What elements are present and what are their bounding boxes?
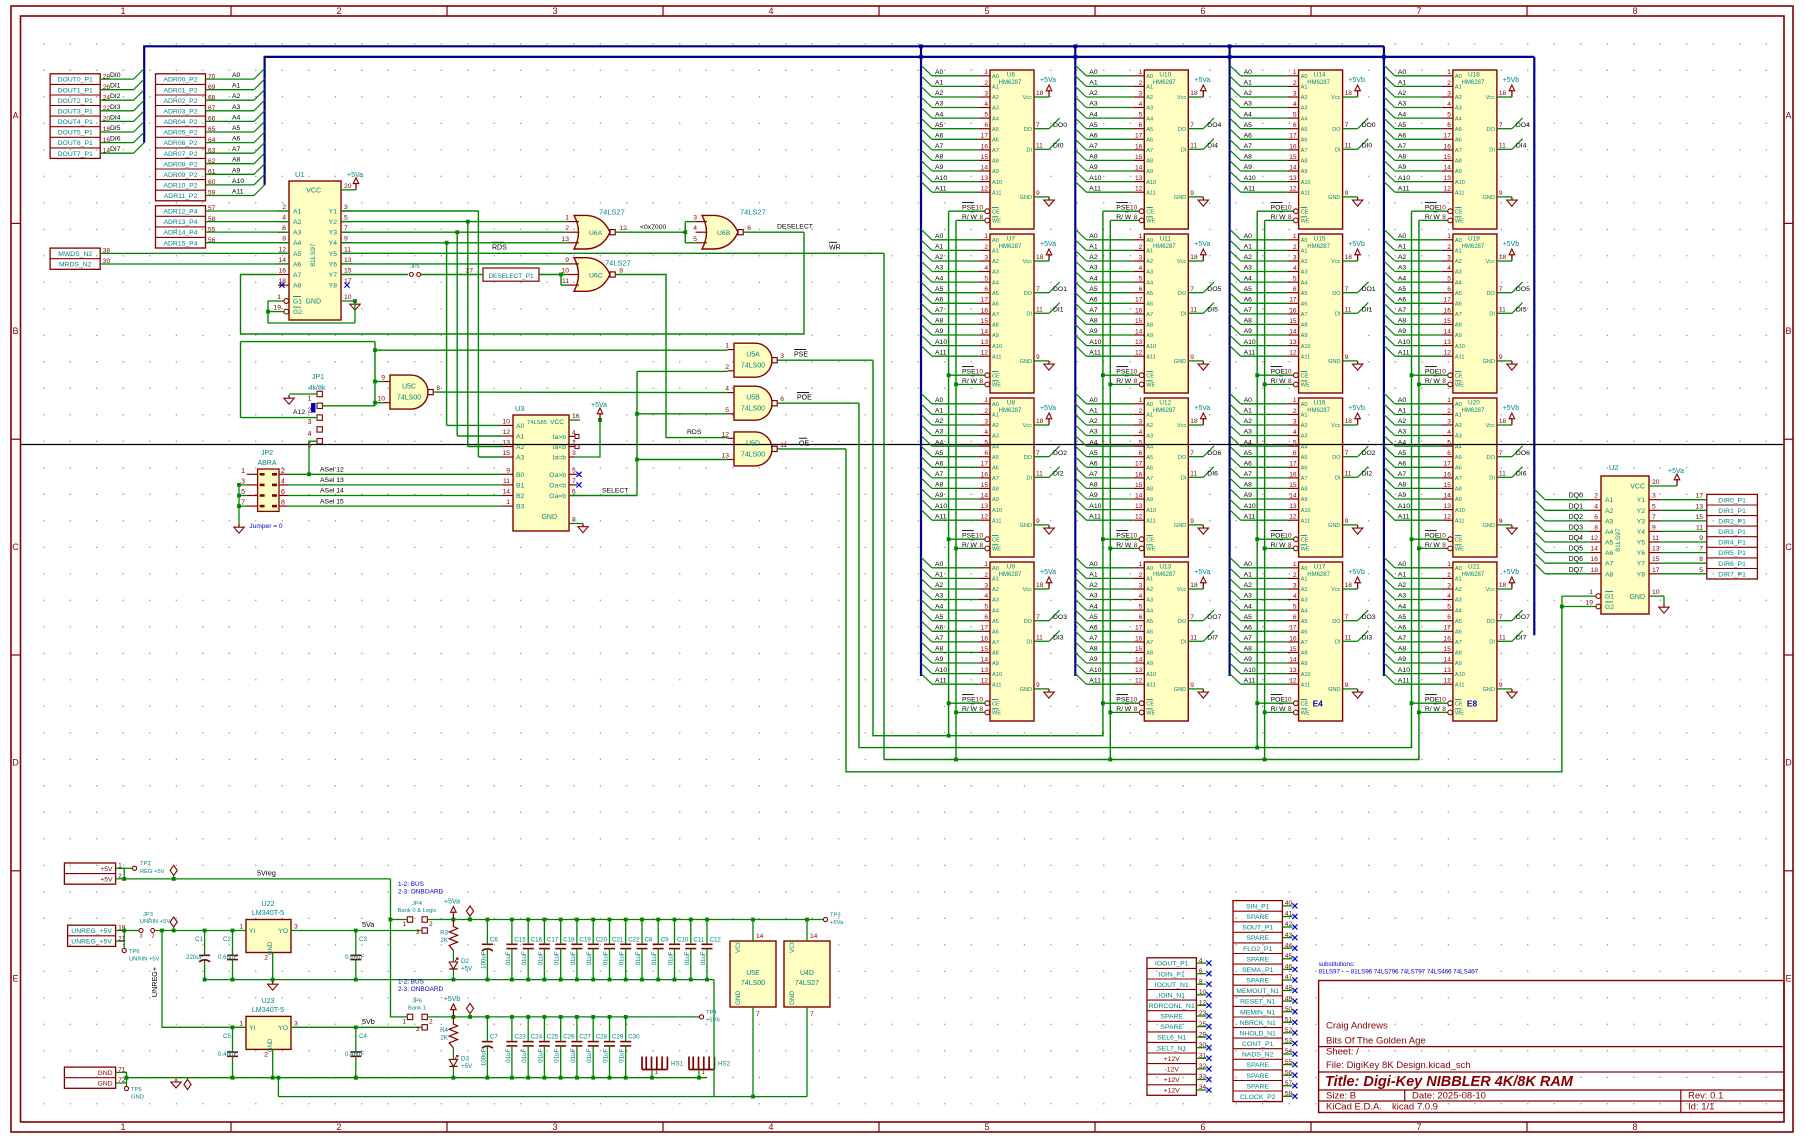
svg-text:A8: A8 — [1146, 323, 1153, 329]
svg-text:A7: A7 — [1244, 635, 1253, 642]
svg-text:WE: WE — [1146, 219, 1155, 225]
svg-text:57: 57 — [208, 205, 216, 212]
svg-text:A3: A3 — [1089, 593, 1098, 600]
svg-text:<0x7000: <0x7000 — [640, 224, 666, 231]
svg-text:A6: A6 — [1089, 133, 1098, 140]
svg-text:HM6287: HM6287 — [1462, 408, 1485, 414]
svg-text:58: 58 — [208, 216, 216, 223]
svg-text:13: 13 — [1135, 339, 1143, 346]
svg-text:DI: DI — [1181, 476, 1187, 482]
svg-text:A3: A3 — [1146, 106, 1153, 112]
svg-text:74LS00: 74LS00 — [397, 395, 421, 402]
svg-text:8: 8 — [979, 378, 983, 385]
svg-text:DI1: DI1 — [1053, 307, 1064, 314]
svg-text:20: 20 — [344, 183, 352, 190]
svg-text:A2: A2 — [1244, 418, 1253, 425]
svg-text:A7: A7 — [1455, 640, 1462, 646]
svg-text:U6A: U6A — [589, 230, 603, 237]
svg-text:A11: A11 — [992, 518, 1002, 524]
svg-text:ADR01_P2: ADR01_P2 — [163, 87, 197, 94]
svg-text:A6: A6 — [293, 261, 302, 268]
svg-text:D3: D3 — [461, 1055, 469, 1062]
svg-text:A2: A2 — [1398, 90, 1407, 97]
svg-text:A8: A8 — [1146, 487, 1153, 493]
svg-text:3: 3 — [139, 934, 142, 940]
svg-text:R/: R/ — [962, 214, 969, 221]
svg-text:HS1: HS1 — [671, 1061, 684, 1068]
svg-text:U3: U3 — [515, 404, 525, 413]
svg-text:REG +5V: REG +5V — [140, 869, 165, 875]
svg-text:PSE: PSE — [1116, 697, 1130, 704]
svg-text:A6: A6 — [1398, 461, 1407, 468]
svg-text:11: 11 — [1345, 635, 1352, 642]
svg-text:1: 1 — [1293, 69, 1297, 76]
svg-text:3: 3 — [1139, 254, 1143, 261]
svg-text:A9: A9 — [1398, 492, 1407, 499]
svg-text:W: W — [1125, 378, 1132, 385]
svg-text:Y3: Y3 — [329, 230, 338, 237]
svg-text:8: 8 — [619, 268, 623, 275]
svg-text:DESELECT_P1: DESELECT_P1 — [488, 273, 534, 280]
svg-text:5: 5 — [984, 1122, 989, 1132]
svg-text:9: 9 — [1345, 518, 1349, 525]
svg-text:5: 5 — [1447, 276, 1451, 283]
svg-text:YO: YO — [278, 1025, 288, 1032]
svg-text:3: 3 — [1293, 582, 1297, 589]
svg-text:12: 12 — [619, 225, 627, 232]
svg-text:W: W — [971, 378, 978, 385]
svg-text:15: 15 — [1444, 154, 1452, 161]
svg-text:A5: A5 — [1146, 619, 1153, 625]
svg-text:8: 8 — [1134, 706, 1138, 713]
svg-text:A11: A11 — [1398, 513, 1410, 520]
svg-text:11: 11 — [503, 478, 510, 485]
svg-text:A8: A8 — [1244, 318, 1253, 325]
svg-text:WE: WE — [1301, 711, 1310, 717]
svg-text:+12V: +12V — [1164, 1077, 1181, 1084]
svg-text:7: 7 — [1652, 514, 1656, 521]
svg-text:4: 4 — [281, 478, 285, 485]
svg-text:A2: A2 — [1398, 254, 1407, 261]
svg-text:10: 10 — [1439, 533, 1447, 540]
svg-text:3: 3 — [984, 254, 988, 261]
svg-text:B3: B3 — [516, 504, 525, 511]
svg-text:C15: C15 — [514, 936, 526, 943]
svg-text:A2: A2 — [935, 582, 944, 589]
svg-text:DQ0: DQ0 — [1569, 493, 1584, 500]
svg-text:63: 63 — [208, 147, 216, 154]
svg-text:POE: POE — [1425, 533, 1440, 540]
svg-text:5: 5 — [1447, 604, 1451, 611]
svg-text:R4: R4 — [440, 1027, 448, 1034]
svg-text:33: 33 — [1199, 1074, 1207, 1081]
svg-text:A0: A0 — [1089, 69, 1098, 76]
svg-text:A10: A10 — [1301, 508, 1311, 514]
svg-text:A7: A7 — [935, 143, 944, 150]
svg-text:A6: A6 — [992, 466, 999, 472]
svg-text:3: 3 — [984, 582, 988, 589]
svg-text:ADR13_P4: ADR13_P4 — [163, 219, 197, 226]
svg-text:+5Vb: +5Vb — [1503, 77, 1520, 84]
svg-text:A3: A3 — [992, 598, 999, 604]
svg-text:JP5: JP5 — [410, 264, 419, 270]
svg-text:25: 25 — [1199, 1021, 1207, 1028]
svg-text:01uF: 01uF — [603, 951, 610, 965]
svg-text:GND: GND — [1328, 687, 1340, 693]
svg-text:WE: WE — [1455, 711, 1464, 717]
svg-text:PSE: PSE — [962, 533, 976, 540]
svg-text:A2: A2 — [1146, 423, 1153, 429]
svg-text:A2: A2 — [1398, 582, 1407, 589]
svg-text:A9: A9 — [1244, 328, 1253, 335]
svg-text:8: 8 — [1134, 214, 1138, 221]
svg-text:16: 16 — [1444, 143, 1452, 150]
svg-text:HM6287: HM6287 — [1153, 80, 1176, 86]
svg-text:NADS_N2: NADS_N2 — [1242, 1052, 1274, 1059]
svg-text:C4: C4 — [359, 1033, 367, 1040]
svg-text:VCC: VCC — [306, 187, 321, 194]
svg-text:WE: WE — [992, 547, 1001, 553]
svg-text:SPARE: SPARE — [1246, 1062, 1269, 1069]
svg-text:YO: YO — [278, 928, 288, 935]
svg-text:4: 4 — [1139, 265, 1143, 272]
svg-text:8: 8 — [1288, 542, 1292, 549]
svg-text:U20: U20 — [1468, 399, 1480, 406]
svg-text:5Va: 5Va — [362, 920, 374, 929]
svg-text:A4: A4 — [1146, 608, 1153, 614]
svg-text:A3: A3 — [1089, 265, 1098, 272]
svg-text:5: 5 — [308, 443, 312, 450]
svg-text:DO: DO — [1332, 619, 1341, 625]
svg-text:45: 45 — [1285, 953, 1293, 960]
svg-text:JP2: JP2 — [261, 450, 273, 457]
svg-text:18: 18 — [1499, 418, 1507, 425]
svg-text:W: W — [1125, 214, 1132, 221]
svg-text:3: 3 — [1293, 418, 1297, 425]
svg-text:14: 14 — [1135, 164, 1143, 171]
svg-text:A10: A10 — [1301, 344, 1311, 350]
svg-text:HM6287: HM6287 — [1307, 244, 1330, 250]
svg-text:1: 1 — [984, 561, 988, 568]
svg-text:12: 12 — [1289, 186, 1297, 193]
svg-text:DI: DI — [1335, 148, 1341, 154]
svg-text:R/: R/ — [1425, 378, 1432, 385]
svg-text:01uF: 01uF — [651, 951, 658, 965]
svg-text:A7: A7 — [1146, 148, 1153, 154]
svg-text:W: W — [1433, 214, 1440, 221]
svg-text:6: 6 — [1200, 6, 1205, 16]
svg-text:WE: WE — [1301, 547, 1310, 553]
svg-text:A5: A5 — [1455, 619, 1462, 625]
svg-text:17: 17 — [1444, 133, 1452, 140]
svg-text:LM340T-5: LM340T-5 — [252, 908, 284, 917]
svg-text:A2: A2 — [1089, 254, 1098, 261]
svg-text:A9: A9 — [1244, 656, 1253, 663]
svg-text:2: 2 — [1447, 572, 1451, 579]
svg-text:A0: A0 — [1244, 397, 1253, 404]
svg-text:7: 7 — [1190, 614, 1194, 621]
svg-text:Ia>b: Ia>b — [553, 434, 567, 441]
svg-text:3: 3 — [416, 1026, 420, 1033]
svg-text:A8: A8 — [232, 157, 241, 164]
svg-text:A8: A8 — [1089, 482, 1098, 489]
svg-text:A0: A0 — [516, 423, 525, 430]
svg-text:7: 7 — [1499, 286, 1503, 293]
svg-text:8: 8 — [1632, 1122, 1637, 1132]
svg-text:A5: A5 — [1244, 286, 1253, 293]
svg-text:A4: A4 — [1605, 529, 1614, 536]
svg-text:12: 12 — [1444, 186, 1452, 193]
svg-text:A9: A9 — [1398, 656, 1407, 663]
svg-text:DIR1_P1: DIR1_P1 — [1718, 508, 1746, 515]
svg-text:C17: C17 — [547, 936, 559, 943]
svg-text:DI: DI — [1026, 640, 1032, 646]
svg-text:+5Va: +5Va — [1194, 569, 1210, 576]
svg-text:GND: GND — [789, 990, 796, 1005]
svg-text:A4: A4 — [935, 439, 944, 446]
svg-text:CONT_P1: CONT_P1 — [1242, 1041, 1274, 1048]
svg-text:17: 17 — [1652, 567, 1660, 574]
svg-text:2: 2 — [264, 1051, 268, 1058]
svg-text:01uF: 01uF — [554, 1048, 561, 1062]
svg-text:A4: A4 — [293, 240, 302, 247]
svg-text:U5C: U5C — [402, 384, 416, 391]
svg-text:2: 2 — [984, 244, 988, 251]
svg-text:8: 8 — [1288, 214, 1292, 221]
svg-text:A5: A5 — [992, 455, 999, 461]
svg-text:POE: POE — [1271, 205, 1286, 212]
svg-text:A8: A8 — [1398, 154, 1407, 161]
svg-text:A3: A3 — [1398, 593, 1407, 600]
svg-text:A2: A2 — [1455, 95, 1462, 101]
svg-text:A3: A3 — [1398, 265, 1407, 272]
svg-text:A3: A3 — [935, 265, 944, 272]
svg-text:16: 16 — [1135, 635, 1143, 642]
svg-text:SPARE: SPARE — [1246, 914, 1269, 921]
svg-text:9: 9 — [565, 257, 569, 264]
svg-text:19: 19 — [1585, 600, 1593, 607]
svg-text:DO: DO — [1487, 127, 1496, 133]
svg-text:01uF: 01uF — [537, 951, 544, 965]
svg-text:UNREG_+5V: UNREG_+5V — [71, 939, 112, 946]
svg-text:A9: A9 — [992, 661, 999, 667]
svg-text:11: 11 — [1499, 471, 1506, 478]
svg-text:13: 13 — [1135, 175, 1143, 182]
svg-text:1: 1 — [402, 921, 406, 928]
svg-text:A4: A4 — [1301, 116, 1308, 122]
svg-text:+5Va: +5Va — [1194, 77, 1210, 84]
svg-text:CLOCK_P2: CLOCK_P2 — [1240, 1094, 1276, 1101]
svg-text:CE: CE — [992, 701, 1000, 707]
svg-text:+5Va: +5Va — [591, 402, 607, 409]
svg-text:A4: A4 — [1089, 439, 1098, 446]
svg-text:GND: GND — [97, 1070, 112, 1077]
svg-text:3: 3 — [1139, 582, 1143, 589]
svg-text:A5: A5 — [1089, 450, 1098, 457]
svg-text:A1: A1 — [1244, 244, 1253, 251]
svg-text:10: 10 — [1199, 989, 1207, 996]
svg-text:U9: U9 — [1007, 563, 1016, 570]
svg-text:A8: A8 — [1455, 159, 1462, 165]
svg-text:55: 55 — [208, 226, 216, 233]
svg-text:A4: A4 — [1244, 275, 1253, 282]
svg-text:4: 4 — [572, 429, 576, 436]
svg-text:38: 38 — [103, 248, 111, 255]
svg-text:DI: DI — [1489, 640, 1495, 646]
svg-text:14: 14 — [756, 933, 764, 940]
svg-text:3: 3 — [1447, 90, 1451, 97]
svg-text:51: 51 — [1285, 1017, 1293, 1024]
svg-text:6: 6 — [747, 225, 751, 232]
svg-text:29: 29 — [1199, 1031, 1207, 1038]
svg-text:1: 1 — [1139, 561, 1143, 568]
svg-text:6: 6 — [1293, 450, 1297, 457]
svg-text:A5: A5 — [1146, 455, 1153, 461]
svg-text:1: 1 — [1139, 397, 1143, 404]
svg-text:A8: A8 — [992, 323, 999, 329]
svg-text:3: 3 — [552, 1122, 557, 1132]
svg-text:A3: A3 — [1398, 429, 1407, 436]
svg-text:17: 17 — [344, 278, 352, 285]
svg-text:A5: A5 — [935, 450, 944, 457]
svg-text:Ia=b: Ia=b — [553, 455, 567, 462]
svg-text:14: 14 — [502, 489, 510, 496]
svg-text:A7: A7 — [1455, 312, 1462, 318]
svg-text:PSE: PSE — [962, 697, 976, 704]
svg-text:5: 5 — [693, 236, 697, 243]
svg-text:U5B: U5B — [746, 395, 760, 402]
svg-text:58: 58 — [1285, 1091, 1293, 1098]
svg-text:7: 7 — [1345, 614, 1349, 621]
svg-text:A1: A1 — [516, 434, 525, 441]
svg-text:14: 14 — [981, 164, 989, 171]
svg-text:A3: A3 — [935, 101, 944, 108]
svg-text:14: 14 — [810, 933, 818, 940]
svg-text:4: 4 — [984, 265, 988, 272]
svg-text:01uF: 01uF — [619, 1048, 626, 1062]
svg-text:10: 10 — [1130, 697, 1138, 704]
svg-text:W: W — [1279, 378, 1286, 385]
svg-text:14: 14 — [1135, 656, 1143, 663]
svg-text:MEMIN_N1: MEMIN_N1 — [1240, 1009, 1275, 1016]
svg-text:74LS85: 74LS85 — [527, 420, 547, 426]
svg-text:DI7: DI7 — [110, 146, 121, 153]
svg-text:U19: U19 — [1468, 235, 1480, 242]
svg-text:ADR03_P2: ADR03_P2 — [163, 108, 197, 115]
svg-text:15: 15 — [1289, 646, 1297, 653]
svg-text:16: 16 — [1289, 143, 1297, 150]
svg-text:12: 12 — [981, 678, 989, 685]
svg-text:A5: A5 — [992, 619, 999, 625]
svg-text:A9: A9 — [1455, 497, 1462, 503]
svg-text:A6: A6 — [935, 297, 944, 304]
svg-text:A9: A9 — [1244, 164, 1253, 171]
svg-text:12: 12 — [1289, 678, 1297, 685]
svg-text:6: 6 — [984, 286, 988, 293]
svg-text:DI2: DI2 — [110, 93, 121, 100]
svg-text:40: 40 — [1285, 900, 1293, 907]
svg-text:2: 2 — [1594, 493, 1598, 500]
svg-text:18: 18 — [1345, 582, 1353, 589]
svg-text:4: 4 — [1199, 957, 1203, 964]
svg-text:A6: A6 — [1244, 133, 1253, 140]
svg-text:Vcc: Vcc — [1486, 423, 1496, 429]
svg-text:A5: A5 — [1244, 450, 1253, 457]
svg-text:A5: A5 — [1244, 614, 1253, 621]
svg-text:A9: A9 — [1146, 169, 1153, 175]
svg-text:C5: C5 — [223, 1033, 231, 1040]
svg-text:+12V: +12V — [1164, 1056, 1181, 1063]
svg-text:SPARE: SPARE — [1246, 978, 1269, 985]
svg-text:11: 11 — [1190, 635, 1197, 642]
svg-text:C2: C2 — [223, 936, 231, 943]
svg-text:Craig Andrews: Craig Andrews — [1326, 1021, 1388, 1032]
svg-text:CE: CE — [1146, 701, 1154, 707]
svg-text:1: 1 — [565, 215, 569, 222]
svg-text:9: 9 — [1190, 354, 1194, 361]
svg-text:A10: A10 — [1244, 339, 1256, 346]
svg-text:PSE: PSE — [1116, 369, 1130, 376]
svg-text:A0: A0 — [935, 233, 944, 240]
svg-text:14: 14 — [1289, 328, 1297, 335]
svg-text:A3: A3 — [1301, 106, 1308, 112]
svg-text:1: 1 — [239, 924, 243, 931]
svg-text:01uF: 01uF — [570, 1048, 577, 1062]
svg-text:Y7: Y7 — [1637, 561, 1646, 568]
svg-text:A10: A10 — [1455, 672, 1465, 678]
svg-text:A10: A10 — [935, 503, 947, 510]
svg-text:DIR5_P1: DIR5_P1 — [1718, 550, 1746, 557]
svg-text:B0: B0 — [516, 472, 525, 479]
svg-text:A11: A11 — [1455, 518, 1465, 524]
svg-text:A2: A2 — [232, 93, 241, 100]
svg-text:6: 6 — [1139, 286, 1143, 293]
svg-text:2: 2 — [1447, 244, 1451, 251]
svg-text:2: 2 — [1293, 80, 1297, 87]
svg-text:A4: A4 — [1244, 439, 1253, 446]
svg-text:A9: A9 — [1301, 333, 1308, 339]
svg-text:DI: DI — [1489, 312, 1495, 318]
svg-text:9: 9 — [1345, 354, 1349, 361]
svg-text:11: 11 — [344, 246, 351, 253]
svg-text:A4: A4 — [992, 116, 999, 122]
svg-text:A4: A4 — [232, 114, 241, 121]
svg-text:A5: A5 — [1398, 286, 1407, 293]
svg-text:74LS00: 74LS00 — [741, 451, 765, 458]
svg-text:DQ3: DQ3 — [1569, 524, 1584, 531]
svg-text:6: 6 — [1447, 122, 1451, 129]
svg-text:DO2: DO2 — [1053, 450, 1067, 457]
svg-text:Date: 2025-08-10: Date: 2025-08-10 — [1412, 1091, 1486, 1102]
svg-text:U8: U8 — [1007, 399, 1016, 406]
svg-text:Vcc: Vcc — [1331, 587, 1341, 593]
svg-text:7: 7 — [1190, 122, 1194, 129]
svg-text:U18: U18 — [1468, 71, 1480, 78]
svg-text:9: 9 — [1345, 682, 1349, 689]
svg-text:11: 11 — [1499, 635, 1506, 642]
svg-text:01uF: 01uF — [619, 951, 626, 965]
svg-text:11: 11 — [1190, 307, 1197, 314]
svg-text:A9: A9 — [1455, 169, 1462, 175]
svg-text:E4: E4 — [1313, 699, 1324, 709]
svg-text:A2: A2 — [1089, 418, 1098, 425]
svg-text:1: 1 — [1447, 233, 1451, 240]
svg-text:12: 12 — [721, 431, 729, 438]
svg-text:17: 17 — [1289, 461, 1297, 468]
svg-text:15: 15 — [344, 268, 352, 275]
svg-text:A3: A3 — [1398, 101, 1407, 108]
svg-text:18: 18 — [1190, 254, 1198, 261]
